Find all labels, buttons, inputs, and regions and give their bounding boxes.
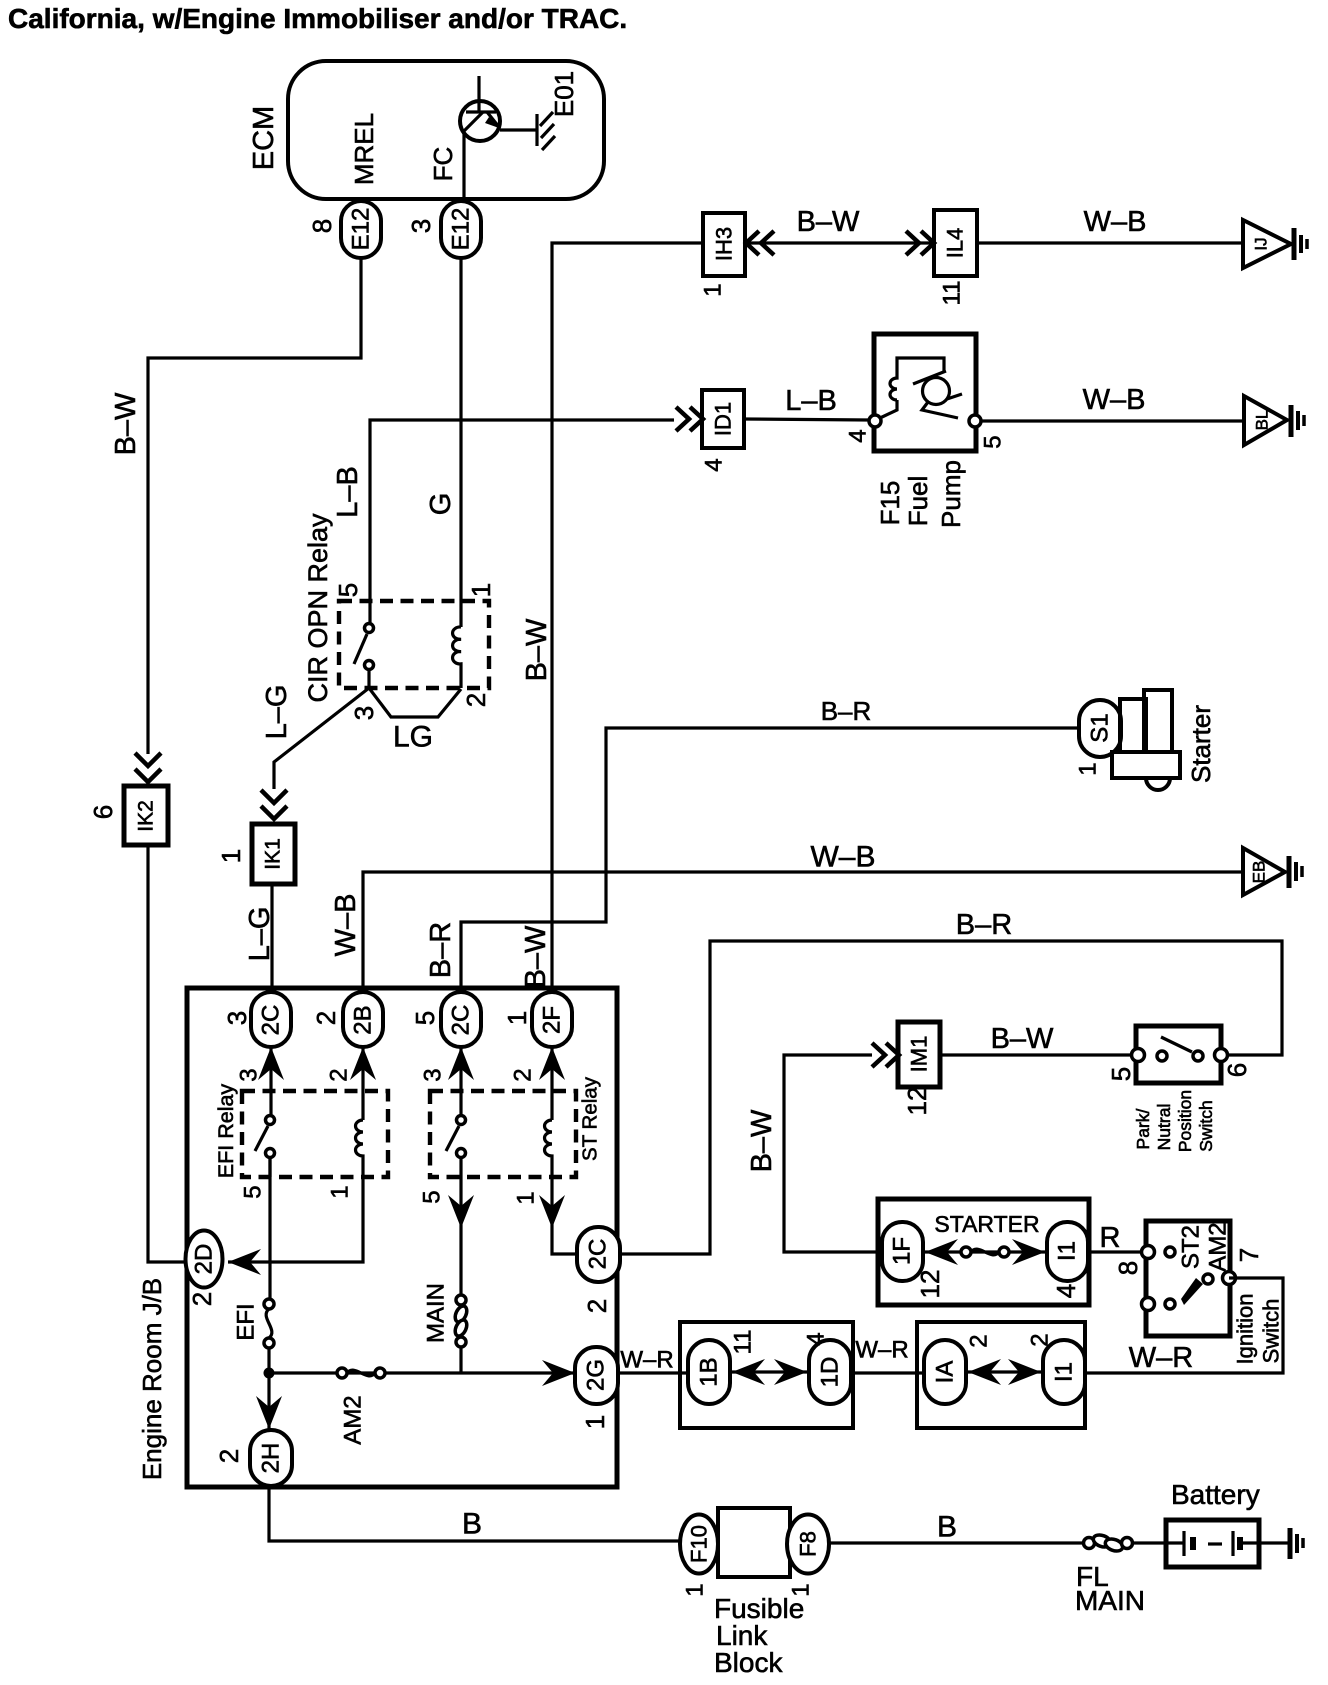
Engine Room J/B box: [187, 988, 617, 1487]
svg-text:California, w/Engine Immobilis: California, w/Engine Immobiliser and/or …: [8, 3, 627, 34]
svg-text:1: 1: [682, 1583, 709, 1596]
connector F8: [787, 1515, 829, 1574]
svg-text:IA: IA: [932, 1361, 959, 1384]
svg-text:Switch: Switch: [1259, 1299, 1284, 1364]
arrow down on ST pin1: [539, 1195, 565, 1228]
connector 1D pin 4: [809, 1340, 851, 1404]
svg-text:6: 6: [88, 805, 118, 819]
svg-text:W–B: W–B: [1083, 384, 1146, 416]
svg-text:2C: 2C: [258, 1005, 285, 1036]
svg-text:F8: F8: [796, 1531, 821, 1557]
pump pin 5: [969, 415, 981, 427]
svg-text:1: 1: [327, 1185, 354, 1198]
svg-text:11: 11: [730, 1330, 757, 1355]
svg-text:L–B: L–B: [332, 466, 364, 518]
svg-text:3: 3: [222, 1011, 252, 1025]
FL MAIN fusible link: [1084, 1538, 1095, 1549]
ground triangle BL: [1244, 396, 1287, 445]
svg-text:B–W: B–W: [797, 206, 860, 238]
connector IK1: [252, 824, 295, 884]
ST relay dashed box: [430, 1091, 576, 1177]
svg-text:7: 7: [1234, 1248, 1264, 1262]
junction chevrons into IK1: [261, 790, 287, 803]
connector IM1: [898, 1022, 940, 1087]
ground triangle EB: [1243, 848, 1285, 895]
svg-text:2C: 2C: [585, 1239, 612, 1270]
wire B-W vertical to IM1 and 1F: [784, 1055, 882, 1252]
wire IK1 to 2C: [270, 884, 273, 992]
svg-text:2B: 2B: [350, 1005, 377, 1034]
STARTER fusible box: [878, 1199, 1089, 1305]
svg-text:W–R: W–R: [620, 1347, 673, 1374]
arrow right into 2G: [542, 1360, 575, 1386]
svg-text:I1: I1: [1054, 1241, 1081, 1261]
earth ground: [1287, 856, 1292, 888]
EFI fuse: [264, 1299, 274, 1309]
svg-text:2: 2: [311, 1011, 341, 1025]
EFI relay coil: [361, 1047, 364, 1120]
svg-text:5: 5: [1106, 1067, 1136, 1081]
svg-text:W–R: W–R: [1129, 1342, 1193, 1374]
svg-text:ST Relay: ST Relay: [579, 1076, 602, 1161]
CIR switch: [365, 624, 374, 633]
connector I1 pin 4: [1047, 1222, 1088, 1281]
earth ground: [1288, 1528, 1293, 1559]
earth ground: [1289, 405, 1294, 437]
wire W-R 1D to IA: [851, 1371, 924, 1374]
MAIN fusible link: [456, 1295, 466, 1305]
wire L-B ID1 to fuel pump: [744, 419, 869, 420]
starter fuse wire: [923, 1250, 1047, 1253]
wire and arrows between IA and I1: [966, 1370, 1043, 1373]
wire EFI switch pin5 down through EFI fuse: [268, 1157, 271, 1300]
svg-text:E12: E12: [348, 208, 375, 251]
svg-text:1F: 1F: [889, 1237, 916, 1265]
svg-text:G: G: [425, 493, 457, 516]
svg-text:11: 11: [939, 281, 966, 306]
svg-text:3: 3: [236, 1068, 263, 1081]
svg-text:STARTER: STARTER: [934, 1211, 1039, 1237]
svg-text:B–W: B–W: [746, 1109, 778, 1172]
svg-text:EFI: EFI: [233, 1303, 260, 1340]
arrow left into 2D: [228, 1249, 261, 1275]
wire W-R 2G to 1B: [618, 1371, 688, 1374]
svg-text:FC: FC: [428, 147, 458, 182]
wire B F8 to battery: [829, 1541, 1084, 1544]
svg-text:B: B: [462, 1508, 482, 1541]
svg-text:1: 1: [216, 849, 246, 863]
arrow down on ST pin5: [448, 1195, 474, 1228]
CIR OPN relay dashed box: [339, 601, 489, 688]
chevrons into ID1: [676, 407, 689, 431]
connector 2H pin 2 bottom edge: [250, 1430, 292, 1486]
svg-text:B–W: B–W: [520, 925, 552, 988]
svg-text:1: 1: [580, 1415, 610, 1429]
fuel pump internals: [880, 400, 897, 418]
svg-text:1: 1: [700, 283, 727, 296]
svg-text:Park/: Park/: [1133, 1108, 1153, 1149]
wire ST coil pin1 to 2C: [552, 1177, 577, 1254]
fuel pump F15 box: [874, 334, 976, 451]
chevrons into IM1: [872, 1043, 885, 1067]
connector S1: [1079, 700, 1121, 757]
svg-text:BL: BL: [1253, 410, 1272, 431]
junction dot: [264, 1368, 275, 1379]
park/neutral position switch box: [1136, 1026, 1221, 1083]
connector 2F pin 1: [532, 992, 572, 1047]
svg-text:F15: F15: [875, 481, 905, 526]
arrows up into top ovals: [258, 1047, 284, 1080]
wire diagonal CIR pin3 to IK1: [274, 688, 369, 789]
svg-text:R: R: [1100, 1222, 1121, 1254]
svg-text:8: 8: [1113, 1261, 1143, 1275]
wire R to ignition switch: [1088, 1250, 1148, 1253]
svg-text:L–B: L–B: [785, 385, 837, 417]
connector E12 pin 3: [441, 201, 481, 258]
svg-text:IJ: IJ: [1252, 237, 1271, 250]
wire B-W IM1 to PNP switch: [940, 1053, 1136, 1056]
svg-text:IM1: IM1: [907, 1036, 932, 1073]
chassis ground E01: [535, 114, 538, 146]
chevrons out of IH3: [746, 231, 759, 255]
connector 2D pin 2 left edge: [186, 1231, 223, 1288]
svg-text:Fuel: Fuel: [903, 476, 933, 527]
ignition key wedge: [1181, 1278, 1203, 1305]
svg-text:B–W: B–W: [110, 392, 142, 455]
svg-text:3: 3: [420, 1068, 447, 1081]
ground triangle IJ: [1243, 220, 1291, 268]
svg-text:3: 3: [349, 706, 379, 720]
svg-text:1D: 1D: [817, 1357, 844, 1388]
svg-text:MAIN: MAIN: [1075, 1585, 1145, 1616]
svg-text:4: 4: [1051, 1284, 1081, 1298]
svg-text:AM2: AM2: [340, 1395, 367, 1444]
wire long B-W from IH3 down to 2F: [552, 243, 703, 992]
svg-text:Ignition: Ignition: [1233, 1294, 1258, 1365]
connector 1F pin 12: [882, 1222, 923, 1281]
svg-text:2: 2: [187, 1292, 217, 1306]
svg-text:1: 1: [513, 1191, 540, 1204]
svg-text:EB: EB: [1250, 861, 1269, 884]
ST relay coil: [550, 1047, 553, 1120]
svg-text:Nutral: Nutral: [1154, 1104, 1174, 1151]
svg-text:1B: 1B: [696, 1357, 723, 1386]
junction block box 1B/1D: [680, 1322, 853, 1428]
svg-text:2: 2: [510, 1068, 537, 1081]
wire battery to ground: [1259, 1541, 1288, 1544]
junction block box IA/I1: [917, 1322, 1085, 1428]
svg-text:IK2: IK2: [135, 800, 158, 832]
svg-text:1: 1: [502, 1011, 532, 1025]
svg-text:2: 2: [214, 1449, 244, 1463]
chevrons into IL4: [906, 231, 919, 255]
svg-text:2C: 2C: [448, 1005, 475, 1036]
wire FC lead inside ECM: [462, 131, 465, 199]
ignition switch box: [1146, 1221, 1230, 1336]
svg-text:AM2: AM2: [1205, 1222, 1232, 1271]
svg-text:4: 4: [845, 429, 872, 442]
svg-text:F10: F10: [687, 1525, 712, 1563]
svg-text:Position: Position: [1175, 1090, 1195, 1152]
svg-text:W–B: W–B: [1084, 206, 1147, 238]
svg-text:ST2: ST2: [1178, 1225, 1205, 1269]
connector ID1: [702, 390, 744, 448]
svg-text:B–W: B–W: [991, 1023, 1054, 1055]
wire AM2 pin7 down to W-R: [1085, 1278, 1283, 1373]
svg-text:4: 4: [803, 1332, 830, 1345]
svg-text:5: 5: [240, 1185, 267, 1198]
wire L-B from CIR pin5 to ID1: [370, 420, 674, 624]
EFI relay dashed box: [242, 1091, 388, 1177]
svg-text:W–B: W–B: [330, 894, 362, 957]
svg-text:2H: 2H: [258, 1443, 285, 1474]
svg-text:5: 5: [410, 1011, 440, 1025]
svg-text:EFI Relay: EFI Relay: [214, 1084, 238, 1179]
svg-text:2F: 2F: [539, 1006, 566, 1034]
svg-text:Starter: Starter: [1186, 705, 1216, 783]
svg-text:E12: E12: [448, 208, 475, 251]
connector 2C pin 5: [441, 992, 481, 1047]
svg-text:3: 3: [406, 219, 436, 233]
svg-text:Pump: Pump: [936, 460, 966, 528]
CIR coil: [453, 627, 461, 688]
svg-text:1: 1: [466, 583, 496, 597]
connector 2G pin 1 right edge: [575, 1347, 618, 1404]
svg-text:2: 2: [326, 1068, 353, 1081]
svg-text:CIR OPN Relay: CIR OPN Relay: [303, 513, 333, 703]
svg-text:I1: I1: [1051, 1362, 1078, 1382]
svg-text:2: 2: [461, 693, 491, 707]
svg-text:B–R: B–R: [821, 696, 872, 726]
connector 2B pin 2: [343, 992, 383, 1047]
svg-text:Switch: Switch: [1196, 1100, 1216, 1152]
svg-text:5: 5: [333, 583, 363, 597]
svg-text:ECM: ECM: [248, 106, 280, 170]
svg-text:8: 8: [307, 219, 337, 233]
arrow left into 1F: [925, 1239, 958, 1265]
earth ground: [1292, 228, 1297, 260]
arrow down to 2H: [256, 1396, 282, 1429]
connector 1B pin 11: [688, 1340, 730, 1404]
svg-text:E01: E01: [549, 71, 579, 117]
LG bracket wire: [369, 688, 461, 717]
svg-text:6: 6: [1222, 1063, 1252, 1077]
svg-text:1: 1: [1075, 762, 1102, 775]
svg-text:IK1: IK1: [262, 838, 285, 870]
connector IK2: [124, 786, 168, 845]
wire IK2 to 2D: [148, 845, 186, 1262]
svg-text:4: 4: [701, 458, 728, 471]
connector F10: [680, 1515, 718, 1574]
svg-text:2: 2: [1027, 1333, 1054, 1346]
svg-text:5: 5: [980, 435, 1007, 448]
connector IH3: [703, 213, 745, 276]
EFI relay switch: [269, 1047, 272, 1116]
wire MREL B-W to IK2: [148, 258, 361, 754]
svg-text:B–W: B–W: [521, 618, 553, 681]
svg-text:5: 5: [419, 1190, 446, 1203]
svg-text:IL4: IL4: [943, 228, 968, 259]
svg-text:12: 12: [902, 1087, 932, 1116]
pump pin 4: [869, 415, 881, 427]
ST relay switch: [459, 1047, 462, 1116]
svg-text:2G: 2G: [583, 1359, 610, 1391]
svg-text:2D: 2D: [191, 1244, 218, 1275]
connector I1 pin 2: [1043, 1340, 1085, 1404]
svg-text:L–G: L–G: [244, 907, 276, 962]
junction chevrons into IK2: [135, 753, 161, 766]
ECM block U1: [288, 61, 604, 199]
starter motor icon: [1144, 690, 1172, 752]
svg-text:B–R: B–R: [425, 922, 457, 978]
svg-text:IH3: IH3: [712, 227, 737, 261]
connector IA pin 2: [924, 1340, 966, 1404]
svg-text:2: 2: [966, 1334, 993, 1347]
svg-text:Engine Room J/B: Engine Room J/B: [137, 1278, 167, 1480]
svg-text:S1: S1: [1087, 713, 1114, 742]
svg-text:W–R: W–R: [855, 1337, 908, 1364]
AM2 fuse wire to 2G: [269, 1371, 576, 1374]
svg-text:B–R: B–R: [956, 909, 1012, 941]
svg-text:Battery: Battery: [1171, 1479, 1260, 1510]
wire and arrows between 1B and 1D: [730, 1370, 809, 1373]
wire W-B from 2B to EB ground: [363, 872, 1243, 992]
wire B-W IH3 to IL4: [745, 241, 934, 244]
connector 2C pin 3: [251, 992, 291, 1047]
svg-text:2: 2: [582, 1299, 612, 1313]
svg-text:L–G: L–G: [261, 685, 293, 740]
wire FC G to CIR coil: [459, 258, 462, 627]
fusible link block rect: [718, 1508, 790, 1577]
wire ST switch pin5 down to MAIN: [459, 1177, 462, 1296]
transistor Q1 (FC driver inside ECM): [460, 101, 500, 141]
arrow right into I1: [1012, 1239, 1045, 1265]
connector 2C pin 2 right edge: [577, 1227, 620, 1282]
svg-text:B: B: [937, 1511, 957, 1544]
svg-text:LG: LG: [393, 721, 433, 754]
connector E12 pin 8: [341, 201, 381, 258]
svg-text:MAIN: MAIN: [423, 1283, 450, 1343]
wire B from 2H to fusible link block: [269, 1486, 681, 1541]
connector IL4: [934, 210, 977, 276]
svg-text:W–B: W–B: [810, 841, 875, 874]
svg-text:Block: Block: [714, 1647, 783, 1678]
svg-text:MREL: MREL: [349, 113, 379, 185]
wire B-R loop 2C to park/neutral switch: [620, 941, 1282, 1254]
wire W-B pump to BL ground: [981, 419, 1244, 422]
wire EFI coil pin1 to 2D: [228, 1177, 363, 1262]
svg-text:12: 12: [915, 1270, 945, 1299]
wire B-R from 2C to starter S1: [461, 728, 1079, 992]
svg-text:ID1: ID1: [711, 402, 736, 436]
wire W-B IL4 to IJ ground: [977, 241, 1243, 244]
